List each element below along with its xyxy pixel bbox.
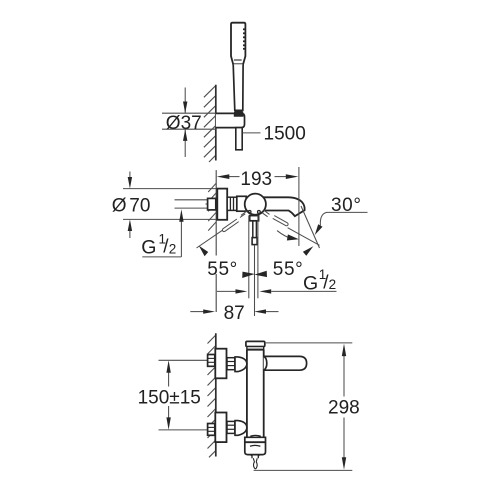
lever (side) [264, 356, 307, 370]
lever knob circle [245, 194, 266, 215]
dimension Ø37 extension lines [162, 88, 216, 158]
wall line (top) [215, 85, 217, 161]
wall hatching (top wall) [204, 86, 216, 163]
svg-text:30°: 30° [331, 195, 362, 216]
supply pipe behind wall [175, 200, 213, 208]
outlet extension lines [248, 216, 250, 299]
mixer body block [237, 196, 246, 211]
lower connector nut [227, 421, 235, 433]
outlet centerline [254, 246, 256, 317]
G1/2 outlet dimension arrows [217, 290, 236, 292]
leader G1/2 inlet [142, 256, 181, 258]
30 leader [320, 212, 367, 225]
right 55 arc and arrow [277, 231, 292, 239]
wall holder bracket [216, 113, 245, 127]
spout [262, 197, 305, 216]
svg-text:G: G [141, 237, 156, 259]
svg-text:2: 2 [329, 277, 337, 292]
dimension 150±15 extension lines [159, 359, 209, 361]
left phantom tube capsule [222, 219, 238, 232]
svg-text:1500: 1500 [264, 124, 306, 145]
wall line (bottom) [215, 333, 217, 456]
svg-text:55°: 55° [207, 259, 238, 280]
leader 1500 [242, 132, 260, 134]
dimension Ø70 [123, 172, 216, 239]
outlet nipple G1/2 [252, 238, 257, 245]
svg-text:Ø: Ø [112, 196, 127, 217]
30-degree line [301, 206, 320, 248]
lower union nut at wall [208, 424, 215, 436]
union nut behind wall [208, 198, 216, 210]
outlet root [250, 216, 259, 221]
left 55 arc arrow [199, 246, 208, 257]
dimension 150±15 line and arrows [168, 373, 170, 387]
svg-text:Ø37: Ø37 [166, 113, 202, 134]
upper escutcheon (side) [215, 349, 226, 379]
hand shower head [231, 23, 245, 65]
upper union nut at wall [208, 355, 215, 367]
right 55-degree swivel line [262, 210, 320, 245]
body small arc above housing [250, 434, 260, 437]
lower D-bulge [235, 421, 247, 436]
30 line lower arrow [303, 246, 313, 256]
escutcheon (front view) [217, 189, 227, 220]
dimension 87 [190, 311, 203, 313]
svg-text:298: 298 [328, 398, 360, 419]
left 55-degree swivel line [197, 211, 248, 248]
wall hatching (bottom) [208, 335, 216, 457]
right phantom tube capsule [273, 216, 288, 226]
upper D-bulge [235, 357, 247, 372]
outlet tube [252, 221, 254, 238]
faucet body (side) [247, 350, 264, 437]
svg-text:87: 87 [224, 303, 245, 324]
wall hatching (middle) [208, 183, 216, 230]
svg-text:70: 70 [129, 196, 150, 217]
aerator housing [245, 437, 266, 454]
pivot dots [248, 211, 251, 214]
dimension 298 [266, 342, 353, 344]
connector nut stripes [227, 197, 237, 210]
lower escutcheon (side) [215, 413, 226, 443]
top cap [246, 341, 265, 346]
spray face ticks [243, 29, 245, 49]
svg-text:2: 2 [169, 242, 177, 257]
outlet nipple and drip [252, 455, 258, 459]
hose crimp (dark) [234, 110, 244, 117]
svg-text:55°: 55° [273, 259, 304, 280]
dimension Ø37 arrows [183, 102, 187, 114]
svg-text:150±15: 150±15 [138, 387, 201, 408]
hand shower handle [233, 64, 243, 110]
dimension 193 [298, 167, 300, 246]
svg-text:193: 193 [240, 169, 272, 190]
wall centerline (middle) [215, 170, 217, 255]
handle seam [234, 59, 242, 61]
bowtie arrows on outlet centerline [242, 272, 255, 278]
upper connector nut [227, 358, 235, 370]
hose [236, 128, 242, 150]
